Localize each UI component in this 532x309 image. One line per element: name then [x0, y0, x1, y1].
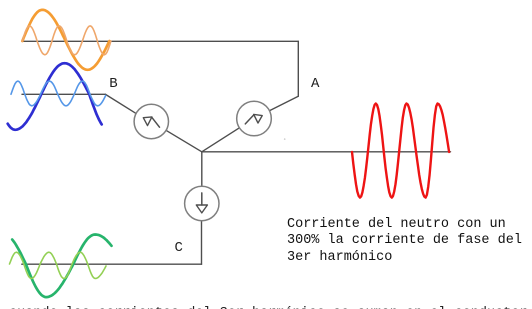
waveform: phase C fundamental (dark green) [12, 235, 111, 298]
waveform: phase A 3rd harmonic (light orange) [22, 26, 111, 55]
node label B [109, 77, 117, 91]
node label C [175, 241, 183, 255]
current source meter MA (phase A) [237, 101, 272, 136]
waveform: neutral current, 300% 3rd harmonic (red) [352, 104, 449, 198]
wire: neutral junction down to meter MC [201, 152, 203, 187]
wire: phase A vertical drop [297, 41, 299, 96]
waveform: phase B fundamental (dark blue) [8, 63, 102, 130]
stray dot node [284, 138, 286, 140]
current source meter MC (neutral leg) [185, 186, 219, 220]
current source meter MB (phase B) [134, 104, 168, 138]
wire: meter MB to neutral junction [166, 130, 202, 152]
waveform: phase A fundamental (dark orange) [22, 10, 109, 70]
waveform: phase C 3rd harmonic (light green) [10, 252, 107, 278]
wire: phase C axis [22, 263, 202, 265]
wire: meter MA to neutral junction [202, 128, 240, 152]
wire: phase A diagonal into meter MA [269, 96, 298, 110]
wire: phase A axis from source to corner [22, 40, 298, 42]
node label A [311, 77, 319, 91]
waveform: phase B 3rd harmonic (light blue) [11, 81, 106, 106]
wire: neutral line to the right [202, 151, 451, 153]
wire: phase B axis [22, 93, 106, 95]
cut-off bottom text line [9, 306, 532, 309]
wire: phase B diagonal into meter MB [106, 94, 136, 113]
wire: phase C vertical riser into meter MC [201, 221, 203, 265]
caption text [287, 217, 522, 267]
